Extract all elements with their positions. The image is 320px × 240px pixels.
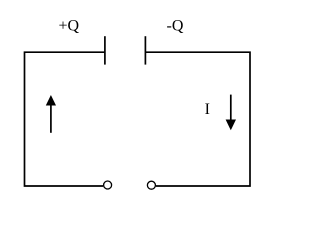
svg-text:-Q: -Q xyxy=(167,18,184,35)
svg-text:+Q: +Q xyxy=(59,18,80,35)
svg-text:I: I xyxy=(205,101,210,118)
